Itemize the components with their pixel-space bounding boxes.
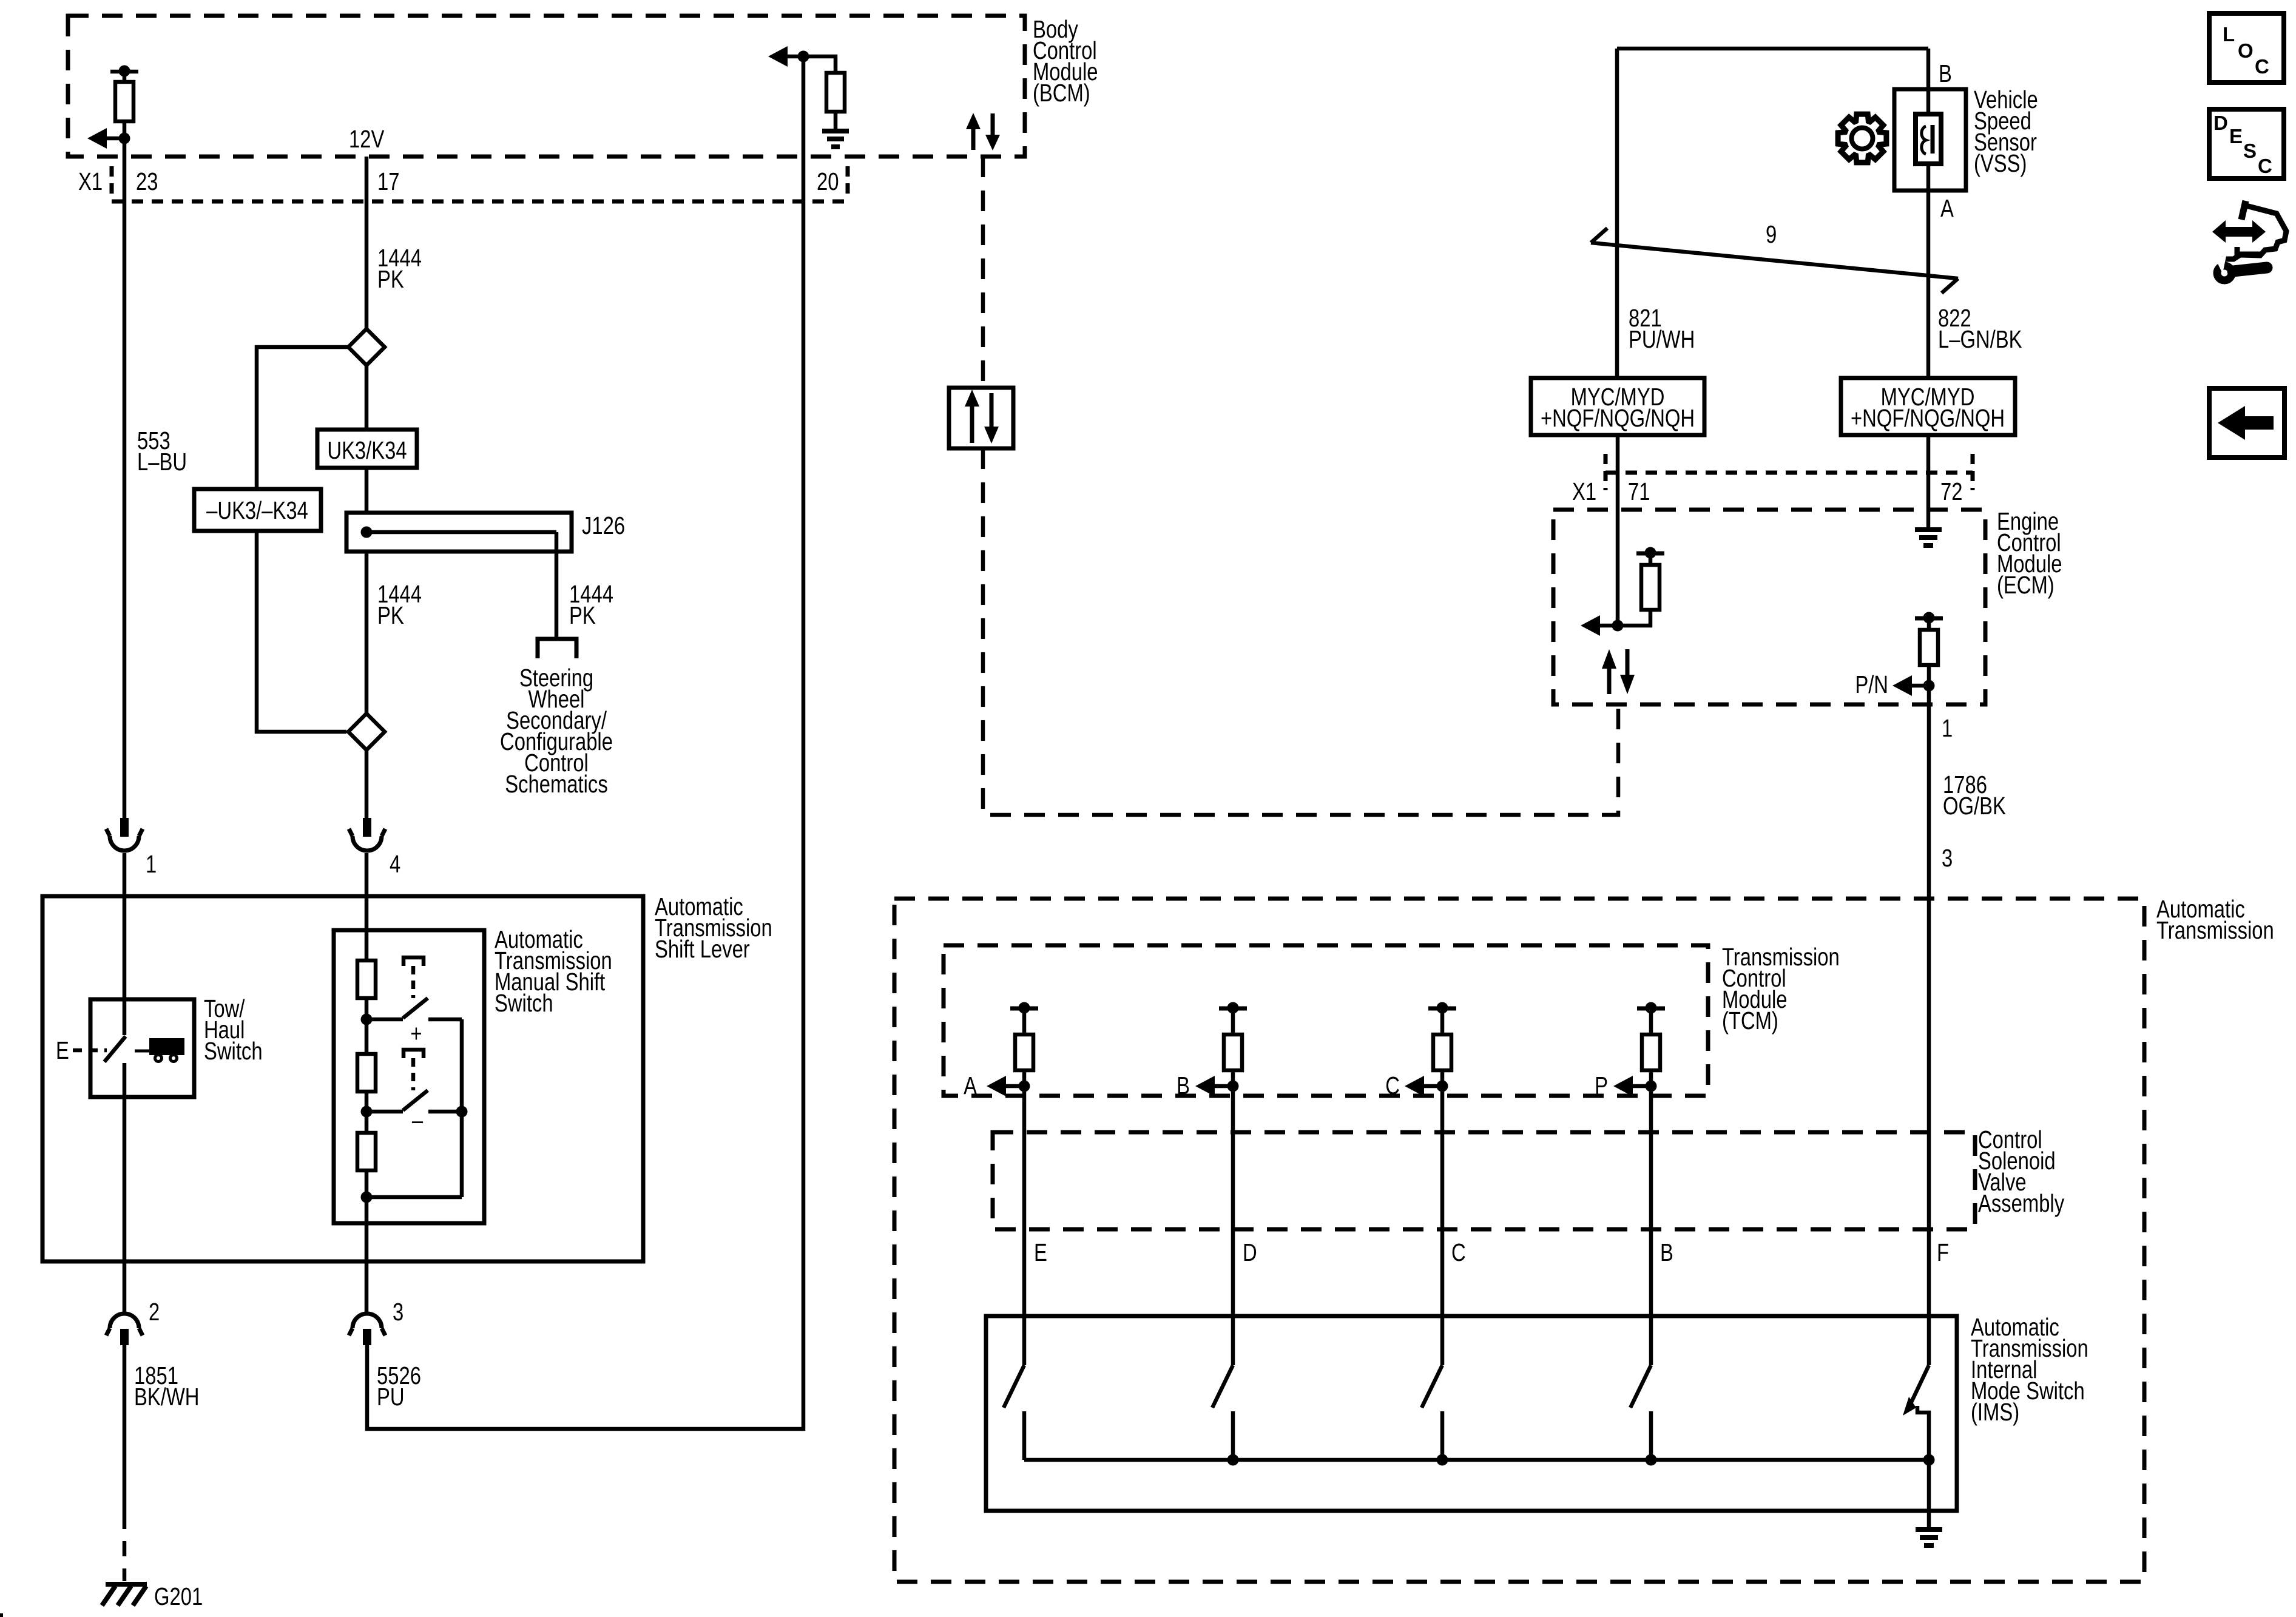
back arrow box: [2209, 388, 2284, 457]
gear icon: [1838, 114, 1886, 163]
IMS switch D: [1212, 1365, 1233, 1460]
resistor: BCM tow/haul signal pull-up: [115, 82, 133, 121]
wire: solenoid B feed: [1649, 1086, 1653, 1365]
svg-text:J126: J126: [582, 511, 625, 539]
wire: circuit 821 left vertical: [1615, 49, 1619, 378]
Engine Control Module (ECM) dashed box: [1553, 510, 1985, 704]
svg-text:G201: G201: [154, 1582, 203, 1610]
wire: circuit 553 from BCM pin 23 down: [123, 138, 127, 818]
svg-text:P/N: P/N: [1855, 670, 1888, 698]
wire: resistor to junction: [123, 121, 127, 138]
wire: serial data dashed from BCM down: [981, 157, 985, 388]
wire: solenoid E feed: [1022, 1086, 1027, 1365]
svg-text:1: 1: [146, 849, 157, 877]
connector X1 line at ECM: [1604, 454, 1608, 490]
vehicle communication icon: [2212, 220, 2266, 243]
svg-text:A: A: [1940, 194, 1954, 221]
switch minus: actuator bracket and blade: [403, 1050, 424, 1058]
splice diamond lower on circuit 1444: [365, 552, 369, 714]
svg-text:P: P: [1595, 1071, 1608, 1099]
svg-text:4: 4: [390, 849, 400, 877]
wire: resistor to ground: [834, 112, 838, 129]
wire: tow/haul lower contact down: [123, 1063, 127, 1314]
trailer icon: [135, 1050, 149, 1053]
svg-text:E: E: [56, 1036, 69, 1064]
Automatic Transmission Internal Mode Switch (IMS) box: [986, 1316, 1957, 1511]
wire: bus to transmission case ground: [1927, 1460, 1931, 1528]
svg-text:B: B: [1660, 1238, 1673, 1266]
connector pin 4 (top half): [363, 818, 371, 837]
svg-text:E: E: [2229, 125, 2243, 147]
TCM pull-up P: [1637, 1007, 1665, 1011]
node: bus junction F: [1923, 1454, 1935, 1466]
wire: R3 down to connector pin 3: [365, 1170, 369, 1314]
svg-text:UK3/K34: UK3/K34: [327, 436, 407, 464]
svg-text:EngineControlModule(ECM): EngineControlModule(ECM): [1997, 507, 2062, 598]
svg-text:+: +: [410, 1019, 422, 1047]
wire: arrow to other circuits (BCM left): [106, 137, 124, 141]
svg-text:C: C: [1451, 1238, 1466, 1266]
node: junction at BCM pin 23 net: [119, 133, 130, 144]
node: junction at BCM pin 20 net: [798, 51, 809, 62]
splice pack J126: [346, 513, 572, 552]
wire: R1 to R2: [365, 998, 369, 1054]
svg-text:–UK3/–K34: –UK3/–K34: [206, 496, 308, 524]
option box MYC/MYD right: [1841, 378, 2015, 435]
IMS switch C: [1422, 1365, 1442, 1460]
node: P/N junction: [1923, 680, 1935, 692]
wire: BCM internal supply bar (left pull-up): [110, 70, 138, 74]
Automatic Transmission dashed box: [894, 899, 2144, 1582]
switch plus: actuator bracket and blade: [403, 957, 424, 966]
Vehicle Speed Sensor (VSS) box: [1894, 89, 1966, 191]
connector X1 line under BCM: [110, 166, 114, 200]
wire: jog to BCM internal resistor: [803, 56, 836, 73]
IMS switch E: [1004, 1365, 1024, 1460]
option box UK3/K34: [317, 430, 417, 468]
resistor: BCM internal pull-up to ground: [826, 73, 845, 112]
node: ECM pin 71 junction: [1612, 620, 1624, 632]
svg-text:B: B: [1177, 1071, 1190, 1099]
wire: circuit 1444 from BCM pin 17 down: [365, 157, 369, 329]
wire: solenoid C feed: [1440, 1086, 1445, 1365]
svg-text:1: 1: [1942, 714, 1953, 741]
IMS common bus: [1024, 1458, 1929, 1462]
wire: circuit 5526 net from BCM pin 20 down and across: [367, 56, 803, 1429]
svg-text:71: 71: [1628, 477, 1650, 505]
IMS wiper switch F: [1911, 1365, 1929, 1402]
splice diamond upper on circuit 1444: [365, 365, 369, 513]
node: junction bottom: [361, 1192, 373, 1203]
svg-text:X1: X1: [1572, 477, 1596, 505]
svg-text:E: E: [1034, 1238, 1047, 1266]
svg-text:17: 17: [377, 167, 399, 195]
option box -UK3/-K34: [194, 489, 321, 531]
wire: circuit 1851 down: [123, 1345, 127, 1514]
IMS switch B: [1630, 1365, 1651, 1460]
node: bus junction D: [1227, 1454, 1239, 1466]
svg-text:C: C: [2258, 155, 2272, 177]
svg-text:–: –: [412, 1106, 424, 1133]
VSS transducer element: [1916, 114, 1941, 164]
svg-text:3: 3: [393, 1297, 403, 1325]
crossing indicator 9: [1591, 243, 1958, 279]
page corner mark: [0, 1613, 3, 1617]
svg-text:S: S: [2243, 140, 2257, 162]
wire: circuit 822 from VSS pin A: [1926, 191, 1931, 378]
TCM pull-up B: [1219, 1007, 1247, 1011]
ground G201: [106, 1582, 147, 1587]
Transmission Control Module (TCM) dashed box: [944, 945, 1708, 1096]
LOC box: [2209, 13, 2284, 83]
ground: ECM pin 72 internal ground: [1915, 527, 1942, 532]
connector pin 1 (top half): [120, 818, 129, 837]
ground: IMS ground: [1916, 1527, 1942, 1532]
Body Control Module (BCM) dashed box: [68, 16, 1025, 157]
wire: stub supply bar to resistor: [123, 72, 127, 82]
top tie wire between circuits 821 and 822: [1617, 47, 1928, 51]
Control Solenoid Valve Assembly dashed box: [993, 1132, 1975, 1229]
svg-text:20: 20: [817, 167, 839, 195]
svg-text:X1: X1: [78, 167, 103, 195]
node: junction dot on supply bar: [119, 66, 130, 77]
svg-text:C: C: [1385, 1071, 1400, 1099]
wire: into shift lever assembly right: [365, 853, 369, 960]
svg-text:A: A: [964, 1071, 977, 1099]
svg-text:L: L: [2223, 23, 2235, 46]
svg-text:O: O: [2238, 39, 2254, 62]
node: junction minus contact: [361, 1106, 373, 1118]
serial data connector box symbol: [949, 388, 1013, 448]
svg-text:72: 72: [1940, 477, 1962, 505]
off-page half box to steering wheel schematics: [538, 639, 576, 658]
svg-text:3: 3: [1942, 843, 1953, 871]
wire: solenoid D feed: [1231, 1086, 1235, 1365]
switch blade tow/haul: [104, 1036, 126, 1062]
node: bus junction C: [1437, 1454, 1448, 1466]
actuator dashes from E: [73, 1048, 107, 1053]
connector pin 3 (bottom half): [353, 1314, 382, 1328]
TCM pull-up A: [1010, 1007, 1038, 1011]
wire: BCM right arrow to other circuits: [787, 55, 803, 59]
wire: 822 to ECM pin 72 ground: [1926, 435, 1931, 528]
node: junction right branch: [456, 1106, 468, 1118]
svg-text:12V: 12V: [349, 124, 385, 152]
svg-text:F: F: [1937, 1238, 1949, 1266]
svg-text:D: D: [2213, 112, 2228, 134]
wire: right branch of manual shift switch: [366, 1019, 462, 1197]
wire inside VSS: [1926, 89, 1931, 191]
serial data arrows inside BCM: [971, 128, 976, 150]
wire: bypass branch left of UK3 options: [257, 347, 348, 732]
node: junction plus contact: [361, 1014, 373, 1025]
DESC box: [2209, 109, 2284, 178]
Tow/Haul Switch box: [90, 999, 194, 1097]
resistor: manual shift R3: [357, 1133, 376, 1170]
wire: VSS pin B stub: [1926, 49, 1931, 89]
svg-text:C: C: [2255, 55, 2269, 78]
wire: J126 branch to steering wheel controls: [555, 532, 559, 639]
ECM pull-up P/N: [1915, 616, 1943, 621]
wire: circuit 1786 from ECM pin 1 down: [1927, 686, 1931, 1365]
resistor: manual shift R1: [357, 960, 376, 998]
TCM pull-up C: [1428, 1007, 1456, 1011]
wrench icon: [2233, 268, 2267, 271]
serial data arrows inside ECM: [1607, 667, 1612, 694]
wire: 821 to ECM pin 71: [1616, 435, 1620, 626]
wire: into shift lever assembly left: [123, 853, 127, 1035]
option box MYC/MYD left: [1531, 378, 1704, 435]
wire: circuit 1444 to connector pin 4: [365, 750, 369, 818]
connector pin 2 (bottom half): [110, 1314, 139, 1328]
Automatic Transmission Manual Shift Switch box: [334, 930, 484, 1223]
svg-text:D: D: [1243, 1238, 1257, 1266]
node: bus junction B: [1646, 1454, 1657, 1466]
wire: R2 to R3: [365, 1092, 369, 1133]
svg-text:9: 9: [1766, 220, 1777, 248]
svg-text:B: B: [1939, 59, 1952, 87]
Automatic Transmission Shift Lever box: [42, 896, 643, 1261]
ECM pull-up on pin 71: [1636, 552, 1664, 556]
ground: BCM internal ground: [822, 129, 849, 133]
svg-text:23: 23: [136, 167, 158, 195]
resistor: manual shift R2: [357, 1054, 376, 1092]
svg-text:2: 2: [149, 1297, 160, 1325]
wire: serial data dashed route to ECM: [983, 448, 1618, 815]
